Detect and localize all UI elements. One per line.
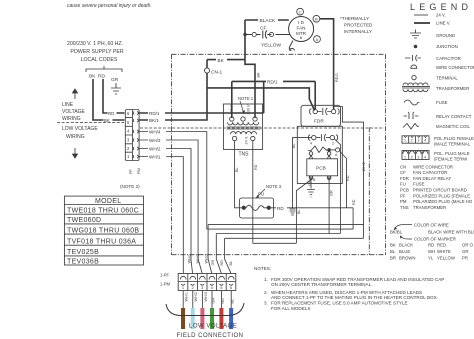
TNS core xyxy=(227,127,261,129)
svg-text:GR: GR xyxy=(211,260,215,266)
svg-text:2: 2 xyxy=(192,285,195,290)
svg-text:CN: CN xyxy=(400,164,406,169)
wire BK/1 from strip xyxy=(139,73,207,120)
svg-text:FIELD CONNECTION: FIELD CONNECTION xyxy=(177,333,244,339)
svg-text:PRINTED CIRCUIT BOARD: PRINTED CIRCUIT BOARD xyxy=(413,188,467,193)
wire BLACK vertical xyxy=(244,20,246,60)
wire contact-left insulated cap xyxy=(293,138,312,208)
svg-text:BK: BK xyxy=(257,72,261,78)
PCB bottom terminals xyxy=(309,176,313,180)
svg-text:TWE060D: TWE060D xyxy=(67,217,101,224)
svg-text:NOTES:: NOTES: xyxy=(254,266,271,271)
svg-text:5: 5 xyxy=(220,285,223,290)
svg-text:BK: BK xyxy=(89,74,96,80)
wire WH/4 xyxy=(139,132,207,230)
label BK/1 xyxy=(148,117,165,123)
svg-text:BLACK WIRE WITH BLUE: BLACK WIRE WITH BLUE xyxy=(428,230,474,235)
abbreviations xyxy=(400,164,473,210)
svg-text:(MALE TERMINAL: (MALE TERMINAL xyxy=(434,142,471,147)
magnetic coil element xyxy=(308,146,329,153)
svg-text:3: 3 xyxy=(201,285,204,290)
svg-text:AND CONNECT 1-PF TO THE MATING: AND CONNECT 1-PF TO THE MATING PLUG IN T… xyxy=(271,295,438,300)
PCB box U2 xyxy=(307,159,338,176)
low voltage dashed separator main xyxy=(140,127,384,129)
wire PCB-BL diagonal xyxy=(296,180,311,244)
svg-text:TNS: TNS xyxy=(239,151,250,157)
wire BK power feed xyxy=(93,79,125,120)
legend pol plug female-terminal xyxy=(402,151,429,160)
color of wire pointer xyxy=(394,225,412,231)
svg-text:TERMINAL: TERMINAL xyxy=(436,76,458,81)
svg-text:RD: RD xyxy=(108,111,114,116)
svg-text:LOCAL CODES: LOCAL CODES xyxy=(81,57,118,63)
svg-text:ON 200V CENTER TRANSFORMER TER: ON 200V CENTER TRANSFORMER TERMINAL . xyxy=(271,282,374,287)
svg-text:4: 4 xyxy=(310,142,312,146)
plug wire labels (top) xyxy=(188,254,234,266)
svg-text:1-PF: 1-PF xyxy=(160,273,170,278)
plug cells xyxy=(188,274,226,291)
legend transformer xyxy=(403,83,428,86)
svg-text:WIRE CONNECTOR: WIRE CONNECTOR xyxy=(436,65,474,70)
svg-text:B: B xyxy=(313,178,316,182)
svg-text:FU: FU xyxy=(258,192,264,197)
svg-text:RD: RD xyxy=(221,298,225,304)
svg-text:WH/2: WH/2 xyxy=(196,254,200,264)
plug domes top row xyxy=(180,276,234,279)
svg-text:2: 2 xyxy=(411,156,413,160)
terminal strip TB xyxy=(125,110,139,161)
svg-text:PCB: PCB xyxy=(400,188,409,193)
svg-text:FAN CAPACITOR: FAN CAPACITOR xyxy=(413,170,447,175)
motor U1 ID FAN MTR xyxy=(289,17,314,42)
LEGEND xyxy=(410,2,472,12)
svg-text:BL: BL xyxy=(229,261,233,266)
wire BL TNS to FU xyxy=(235,141,242,208)
TNS bottom terminals xyxy=(232,136,236,140)
svg-text:POLARIZED PLUG (FEMALE: POLARIZED PLUG (FEMALE xyxy=(413,193,470,198)
svg-text:PROTECTED: PROTECTED xyxy=(344,23,373,28)
svg-text:RD: RD xyxy=(346,175,350,181)
svg-text:FOR ALL MODELS: FOR ALL MODELS xyxy=(271,306,310,311)
svg-text:YELLOW: YELLOW xyxy=(437,255,456,260)
svg-text:BL: BL xyxy=(292,143,296,148)
svg-text:BLACK: BLACK xyxy=(260,18,277,24)
line voltage arrow xyxy=(73,89,78,99)
wire FDR coil feed xyxy=(334,107,364,239)
wire to transformer right xyxy=(245,60,255,118)
svg-text:2: 2 xyxy=(332,142,334,146)
model table xyxy=(64,196,143,265)
bus wire 1 xyxy=(208,224,363,226)
svg-text:FAN DELAY RELAY: FAN DELAY RELAY xyxy=(413,176,451,181)
svg-text:1: 1 xyxy=(127,154,130,159)
plug numbers bottom row xyxy=(182,285,233,290)
capacitor CF xyxy=(245,31,290,39)
plug drop wires xyxy=(208,225,231,274)
svg-text:WH/4: WH/4 xyxy=(149,130,161,135)
svg-text:WH/1: WH/1 xyxy=(185,292,189,302)
unit boundary (dash-dot) xyxy=(172,54,386,254)
svg-text:WH/3: WH/3 xyxy=(204,292,208,302)
LV relay contact (FDR aux) xyxy=(312,135,316,139)
bus wire 5 xyxy=(253,242,297,244)
svg-text:JUNCTION: JUNCTION xyxy=(436,44,458,49)
svg-text:RED: RED xyxy=(437,242,446,247)
terminal numbers xyxy=(127,111,130,159)
svg-text:TNS: TNS xyxy=(400,205,409,210)
field wire colored: red xyxy=(219,308,223,329)
svg-text:PCB: PCB xyxy=(316,166,326,172)
wire to FDR left terminal xyxy=(314,81,316,109)
motor terminal A xyxy=(314,36,321,43)
svg-text:BLACK: BLACK xyxy=(399,242,413,247)
svg-text:1: 1 xyxy=(404,156,406,160)
svg-text:FU: FU xyxy=(400,182,406,187)
wire fuse A to right xyxy=(340,152,347,208)
svg-text:INTERNALLY: INTERNALLY xyxy=(344,29,372,34)
svg-text:A: A xyxy=(335,153,338,157)
junction xyxy=(243,33,246,36)
svg-text:MODEL: MODEL xyxy=(95,198,121,205)
control enclosure box xyxy=(297,126,342,183)
svg-text:LINE: LINE xyxy=(62,102,74,108)
svg-text:OR O: OR O xyxy=(462,242,474,247)
wire WH/3 xyxy=(139,140,202,274)
svg-text:GR: GR xyxy=(462,249,468,254)
svg-text:BK/1: BK/1 xyxy=(149,118,159,123)
field wire labels xyxy=(185,292,235,304)
svg-text:BROWN: BROWN xyxy=(399,255,415,260)
fuse FU box xyxy=(240,198,274,218)
wire RD/1 from strip xyxy=(139,81,315,113)
transformer TNS box xyxy=(223,104,262,149)
svg-text:6: 6 xyxy=(127,111,130,116)
svg-text:RD: RD xyxy=(220,260,224,266)
svg-text:WH/2: WH/2 xyxy=(194,292,198,302)
svg-text:2.: 2. xyxy=(264,290,268,295)
power bracket xyxy=(86,66,122,72)
svg-text:24 V.: 24 V. xyxy=(245,136,249,145)
svg-text:POL.PLUG FEMALE: POL.PLUG FEMALE xyxy=(434,136,474,141)
svg-text:GR: GR xyxy=(330,190,334,196)
svg-text:FUSE: FUSE xyxy=(436,100,448,105)
svg-text:NOTE 3: NOTE 3 xyxy=(266,184,282,189)
svg-text:RELAY CONTACT: RELAY CONTACT xyxy=(436,114,472,119)
svg-text:BK/BL: BK/BL xyxy=(390,230,403,235)
wire to transformer left xyxy=(231,81,233,118)
bus wire 2 xyxy=(207,228,353,230)
wire PCB-BR down xyxy=(328,180,330,234)
svg-text:4: 4 xyxy=(211,285,214,290)
legend pol plug male-terminal xyxy=(402,136,429,143)
svg-text:cause severe personal injury o: cause severe personal injury or death. xyxy=(67,3,152,9)
svg-text:BK: BK xyxy=(218,58,225,63)
svg-text:*THERMALLY: *THERMALLY xyxy=(340,16,369,21)
svg-text:PR: PR xyxy=(462,255,468,260)
ground symbol (PCB) xyxy=(307,180,315,197)
svg-text:4: 4 xyxy=(127,129,130,134)
svg-text:FUSE: FUSE xyxy=(413,182,425,187)
svg-text:POWER SUPPLY PER: POWER SUPPLY PER xyxy=(70,49,123,55)
TNS secondary winding xyxy=(231,132,257,135)
wire RD power feed xyxy=(103,79,125,113)
svg-text:A: A xyxy=(316,37,319,42)
svg-text:BR: BR xyxy=(390,255,396,260)
insulated cap symbol xyxy=(290,209,296,215)
svg-text:RD: RD xyxy=(254,164,258,170)
svg-text:WH/2: WH/2 xyxy=(362,162,366,172)
svg-text:WH/1: WH/1 xyxy=(188,254,192,264)
wire WH/1 xyxy=(139,157,183,274)
svg-text:RD/1: RD/1 xyxy=(267,80,278,85)
svg-text:RD: RD xyxy=(352,199,356,205)
svg-text:3: 3 xyxy=(127,137,130,142)
wire GR ground lead xyxy=(115,83,117,88)
TNS primary winding xyxy=(228,122,259,125)
field wires below plug xyxy=(183,291,231,309)
terminal xyxy=(336,148,340,152)
legend terminal xyxy=(412,75,416,79)
wire RD from fuse xyxy=(269,208,353,229)
svg-text:3: 3 xyxy=(417,139,419,143)
field connection label xyxy=(177,324,244,339)
svg-text:230 V: 230 V xyxy=(247,104,251,114)
svg-text:BL: BL xyxy=(390,249,396,254)
svg-text:TEV025B: TEV025B xyxy=(67,249,99,256)
TNS top terminals xyxy=(230,117,234,121)
svg-text:RD: RD xyxy=(277,206,284,211)
svg-text:LINE V.: LINE V. xyxy=(436,21,450,26)
svg-text:YL: YL xyxy=(428,255,434,260)
svg-text:WIRING: WIRING xyxy=(66,134,85,140)
svg-text:B: B xyxy=(315,17,318,22)
field wire colored: green xyxy=(210,308,214,329)
svg-text:BLUE: BLUE xyxy=(399,249,410,254)
fuse element xyxy=(244,205,269,210)
ground symbol (power) xyxy=(111,88,121,94)
svg-text:BL: BL xyxy=(235,167,239,172)
svg-text:COLOR OF WIRE: COLOR OF WIRE xyxy=(414,222,449,227)
svg-text:WH/3: WH/3 xyxy=(149,138,161,143)
PCB top terminals xyxy=(309,152,313,156)
inner boundary right (dash-dot) xyxy=(368,127,370,254)
svg-text:POL. PLUG MALE: POL. PLUG MALE xyxy=(434,151,470,156)
svg-text:LOW VOLTAGE: LOW VOLTAGE xyxy=(189,324,237,330)
svg-text:LEGEND: LEGEND xyxy=(410,2,472,12)
svg-text:WIRING: WIRING xyxy=(62,116,81,122)
field connection brace xyxy=(166,303,244,316)
svg-text:TEV036B: TEV036B xyxy=(67,259,99,266)
strip low voltage wire labels xyxy=(148,129,166,135)
svg-text:FDR: FDR xyxy=(400,176,409,181)
legend fuse xyxy=(404,100,420,105)
motor terminal C xyxy=(297,8,304,15)
connector CN-1 xyxy=(204,68,209,73)
svg-text:WH/3: WH/3 xyxy=(205,254,209,264)
notes xyxy=(254,266,444,311)
svg-text:FAN: FAN xyxy=(297,26,306,31)
svg-text:TRANSFORMER: TRANSFORMER xyxy=(436,86,469,91)
low voltage arrow xyxy=(73,148,78,158)
legend ground xyxy=(410,30,421,39)
svg-text:GROUND: GROUND xyxy=(436,33,455,38)
legend 24v line xyxy=(414,14,428,16)
wire motor B to FDR right xyxy=(320,19,334,109)
svg-text:2: 2 xyxy=(127,146,130,151)
bus wire 3 xyxy=(216,233,340,235)
svg-text:PM: PM xyxy=(137,168,141,174)
svg-text:YELLOW: YELLOW xyxy=(261,43,281,49)
dashed separator left xyxy=(57,122,124,124)
thermal note xyxy=(340,16,373,34)
svg-text:NOTE 1: NOTE 1 xyxy=(238,96,254,101)
svg-text:C: C xyxy=(299,10,302,15)
svg-text:RD: RD xyxy=(428,242,434,247)
svg-text:COLOR OF MARKER: COLOR OF MARKER xyxy=(414,237,456,242)
label BK xyxy=(216,57,227,63)
motor terminal B xyxy=(313,15,320,22)
label RD/1 (upper run) xyxy=(266,78,283,84)
svg-text:PF: PF xyxy=(400,193,406,198)
svg-text:6: 6 xyxy=(230,285,233,290)
svg-text:200 V: 200 V xyxy=(230,104,234,114)
legend junction xyxy=(414,45,418,49)
wire BK motor feed xyxy=(207,60,245,68)
svg-text:CAPACITOR: CAPACITOR xyxy=(436,56,461,61)
svg-text:PF: PF xyxy=(129,168,133,174)
svg-text:WH: WH xyxy=(428,249,435,254)
svg-text:PM: PM xyxy=(400,199,407,204)
svg-text:TWE018 THRU 060C: TWE018 THRU 060C xyxy=(67,208,139,215)
svg-text:200/230 V. 1 PH.,60 HZ.: 200/230 V. 1 PH.,60 HZ. xyxy=(67,41,123,47)
color abbreviation table xyxy=(390,242,474,260)
svg-text:1.: 1. xyxy=(264,277,268,282)
legend wire connector xyxy=(411,65,417,68)
label RD/1 (strip side) xyxy=(148,110,165,116)
strip plug contacts xyxy=(133,111,138,158)
svg-text:5: 5 xyxy=(127,120,130,125)
junction dot xyxy=(327,148,331,152)
svg-text:VOLTAGE: VOLTAGE xyxy=(62,109,86,115)
svg-text:TRANSFORMER: TRANSFORMER xyxy=(413,205,446,210)
wire BLACK to motor xyxy=(245,19,289,21)
svg-text:4: 4 xyxy=(424,156,426,160)
svg-text:CN-1: CN-1 xyxy=(211,70,223,76)
svg-text:FDR: FDR xyxy=(314,119,324,125)
svg-text:POLARIZED PLUG (MALE HO: POLARIZED PLUG (MALE HO xyxy=(413,199,473,204)
wire WH/2 xyxy=(139,149,193,274)
field wire colored: pink xyxy=(200,308,204,329)
svg-text:2: 2 xyxy=(411,139,413,143)
field wire colored: brown xyxy=(181,308,185,329)
svg-text:(FEMALE TERMI: (FEMALE TERMI xyxy=(434,157,467,162)
color of marker pointer xyxy=(400,236,412,240)
svg-text:GR: GR xyxy=(111,77,119,83)
svg-text:RD/2: RD/2 xyxy=(335,73,339,82)
svg-text:1: 1 xyxy=(404,139,406,143)
FDR relay box xyxy=(301,105,341,126)
svg-text:1: 1 xyxy=(182,285,185,290)
svg-text:24 V.: 24 V. xyxy=(436,13,446,18)
svg-text:BL: BL xyxy=(297,209,301,214)
svg-text:WHITE: WHITE xyxy=(437,249,451,254)
svg-text:CF: CF xyxy=(400,170,406,175)
legend line v xyxy=(414,22,430,24)
svg-text:GR: GR xyxy=(212,298,216,304)
svg-text:*: * xyxy=(300,37,303,44)
wire RD TNS down xyxy=(252,141,254,244)
svg-text:(NOTE 2): (NOTE 2) xyxy=(120,184,140,189)
svg-text:WIRE CONNECTOR: WIRE CONNECTOR xyxy=(413,164,453,169)
svg-text:3: 3 xyxy=(417,156,419,160)
wire contact right to RD vertical xyxy=(334,139,340,234)
svg-text:1-PM: 1-PM xyxy=(160,282,171,287)
svg-text:LOW VOLTAGE: LOW VOLTAGE xyxy=(62,126,98,132)
motor unused lead xyxy=(289,41,294,51)
svg-text:RD/1: RD/1 xyxy=(149,111,160,116)
svg-text:CF: CF xyxy=(260,26,266,32)
svg-text:TVF018 THRU 036A: TVF018 THRU 036A xyxy=(67,238,136,245)
svg-text:3.: 3. xyxy=(264,301,268,306)
FDR line contact xyxy=(313,109,317,113)
svg-text:WH/2: WH/2 xyxy=(149,147,161,152)
svg-text:I D: I D xyxy=(298,20,305,25)
svg-text:RD: RD xyxy=(98,74,105,80)
field wire colored: light blue xyxy=(191,308,195,329)
svg-text:TWG018 THRU 060B: TWG018 THRU 060B xyxy=(67,227,139,234)
legend relay contact xyxy=(404,112,419,119)
wire CN-1 to FDR xyxy=(207,88,315,111)
svg-text:BL: BL xyxy=(231,299,235,304)
bus wire 4 xyxy=(225,237,364,239)
field wire colored: blue xyxy=(229,308,233,329)
svg-text:MTR: MTR xyxy=(296,31,307,36)
legend capacitor xyxy=(405,55,421,61)
svg-text:4: 4 xyxy=(424,139,426,143)
svg-text:MAGNETIC COIL: MAGNETIC COIL xyxy=(436,124,471,129)
svg-text:BK: BK xyxy=(390,242,396,247)
legend magnetic coil xyxy=(403,124,419,130)
svg-text:WH/1: WH/1 xyxy=(149,155,161,160)
